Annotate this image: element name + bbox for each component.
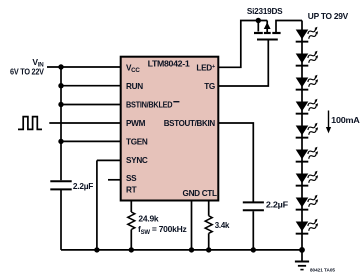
svg-text:2.2µF: 2.2µF: [73, 181, 93, 191]
svg-text:2.2µF: 2.2µF: [266, 199, 288, 209]
svg-text:CTL: CTL: [202, 189, 217, 198]
svg-text:PWM: PWM: [126, 119, 146, 128]
svg-text:BSTOUT/BKIN: BSTOUT/BKIN: [164, 119, 216, 128]
svg-text:Si2319DS: Si2319DS: [247, 6, 283, 16]
svg-text:TG: TG: [204, 82, 215, 91]
svg-text:RT: RT: [126, 186, 137, 195]
svg-text:TGEN: TGEN: [126, 137, 148, 146]
svg-text:SS: SS: [126, 174, 137, 183]
svg-text:24.9k: 24.9k: [138, 214, 159, 224]
svg-text:80421 TA05: 80421 TA05: [310, 268, 335, 273]
svg-text:UP TO 29V: UP TO 29V: [308, 11, 349, 21]
svg-text:SYNC: SYNC: [126, 156, 148, 165]
svg-text:GND: GND: [183, 189, 201, 198]
svg-text:RUN: RUN: [126, 82, 143, 91]
svg-text:BSTIN/BKLED: BSTIN/BKLED: [126, 101, 173, 110]
svg-text:100mA: 100mA: [331, 115, 359, 125]
svg-text:6V TO 22V: 6V TO 22V: [10, 67, 45, 76]
svg-text:3.4k: 3.4k: [215, 220, 230, 230]
svg-text:LTM8042-1: LTM8042-1: [148, 60, 191, 69]
